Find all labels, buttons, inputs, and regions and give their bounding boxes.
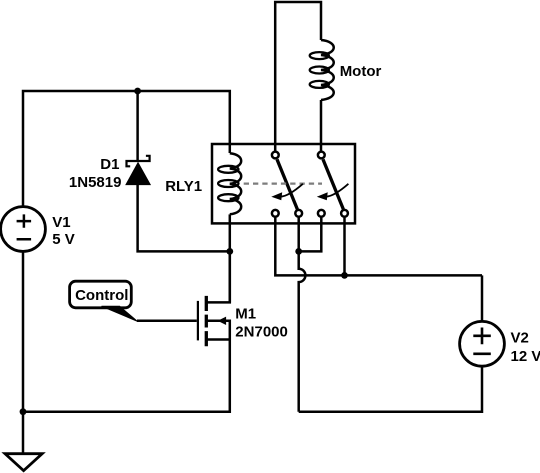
svg-text:Motor: Motor [340, 63, 382, 80]
svg-text:M1: M1 [235, 306, 256, 323]
svg-text:D1: D1 [100, 156, 119, 173]
svg-text:Control: Control [75, 287, 128, 304]
svg-text:5 V: 5 V [52, 231, 75, 248]
svg-text:2N7000: 2N7000 [235, 324, 288, 341]
svg-text:RLY1: RLY1 [165, 178, 202, 195]
svg-text:1N5819: 1N5819 [69, 174, 122, 191]
svg-text:V1: V1 [52, 214, 70, 231]
svg-text:12 V: 12 V [511, 348, 540, 365]
svg-text:V2: V2 [511, 330, 529, 347]
